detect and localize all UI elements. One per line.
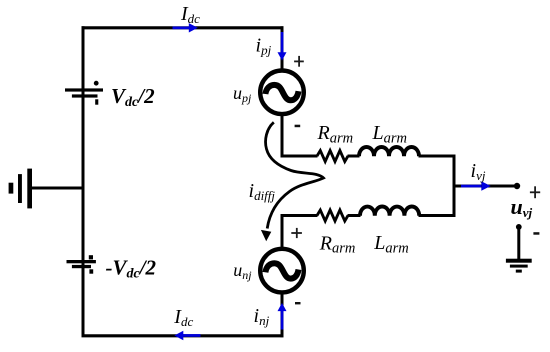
arrow ivj xyxy=(461,181,491,191)
inductor Larm lower xyxy=(360,207,419,216)
wire output xyxy=(454,185,517,188)
ground GND right xyxy=(506,259,532,273)
plus output xyxy=(530,186,540,198)
wire upper branch segment a xyxy=(281,155,318,158)
wire lower branch segment c xyxy=(419,214,456,217)
wire upper branch segment b xyxy=(348,155,360,158)
minus lower source xyxy=(295,302,301,304)
wire ground left xyxy=(31,187,85,190)
wire upper source stem top xyxy=(281,26,284,70)
arrow Idc top xyxy=(173,23,198,32)
wire upper source stem bottom xyxy=(281,114,284,158)
wire top bus xyxy=(82,26,284,29)
wire upper branch segment c xyxy=(419,155,456,158)
arrow idiffj curve xyxy=(261,122,324,241)
wire ground right stem xyxy=(517,227,520,259)
battery B1 (Vdc/2) xyxy=(65,81,103,105)
plus upper source xyxy=(294,56,304,67)
wire lower branch segment b xyxy=(348,214,361,217)
wire bottom bus xyxy=(82,334,284,337)
inductor Larm upper xyxy=(359,147,419,156)
wire lower branch segment a xyxy=(281,214,318,217)
resistor Rarm upper xyxy=(317,151,348,162)
ac source unj xyxy=(260,249,304,293)
minus upper source xyxy=(295,125,301,128)
node output dot xyxy=(514,183,520,189)
wire lower source stem top xyxy=(281,214,284,250)
wire left vertical xyxy=(82,26,85,336)
wire lower source stem bottom xyxy=(281,292,284,337)
arrow Idc bottom xyxy=(174,331,200,340)
node ground dot xyxy=(516,224,522,230)
ac source upj xyxy=(260,71,304,115)
ground GND left xyxy=(9,169,32,209)
battery B2 (-Vdc/2) xyxy=(67,255,96,273)
plus lower source xyxy=(291,228,302,238)
arrow inj xyxy=(278,303,287,330)
wire right vertical xyxy=(453,155,456,218)
resistor Rarm lower xyxy=(317,210,348,221)
minus output xyxy=(533,232,539,235)
arrow ipj xyxy=(278,32,287,61)
